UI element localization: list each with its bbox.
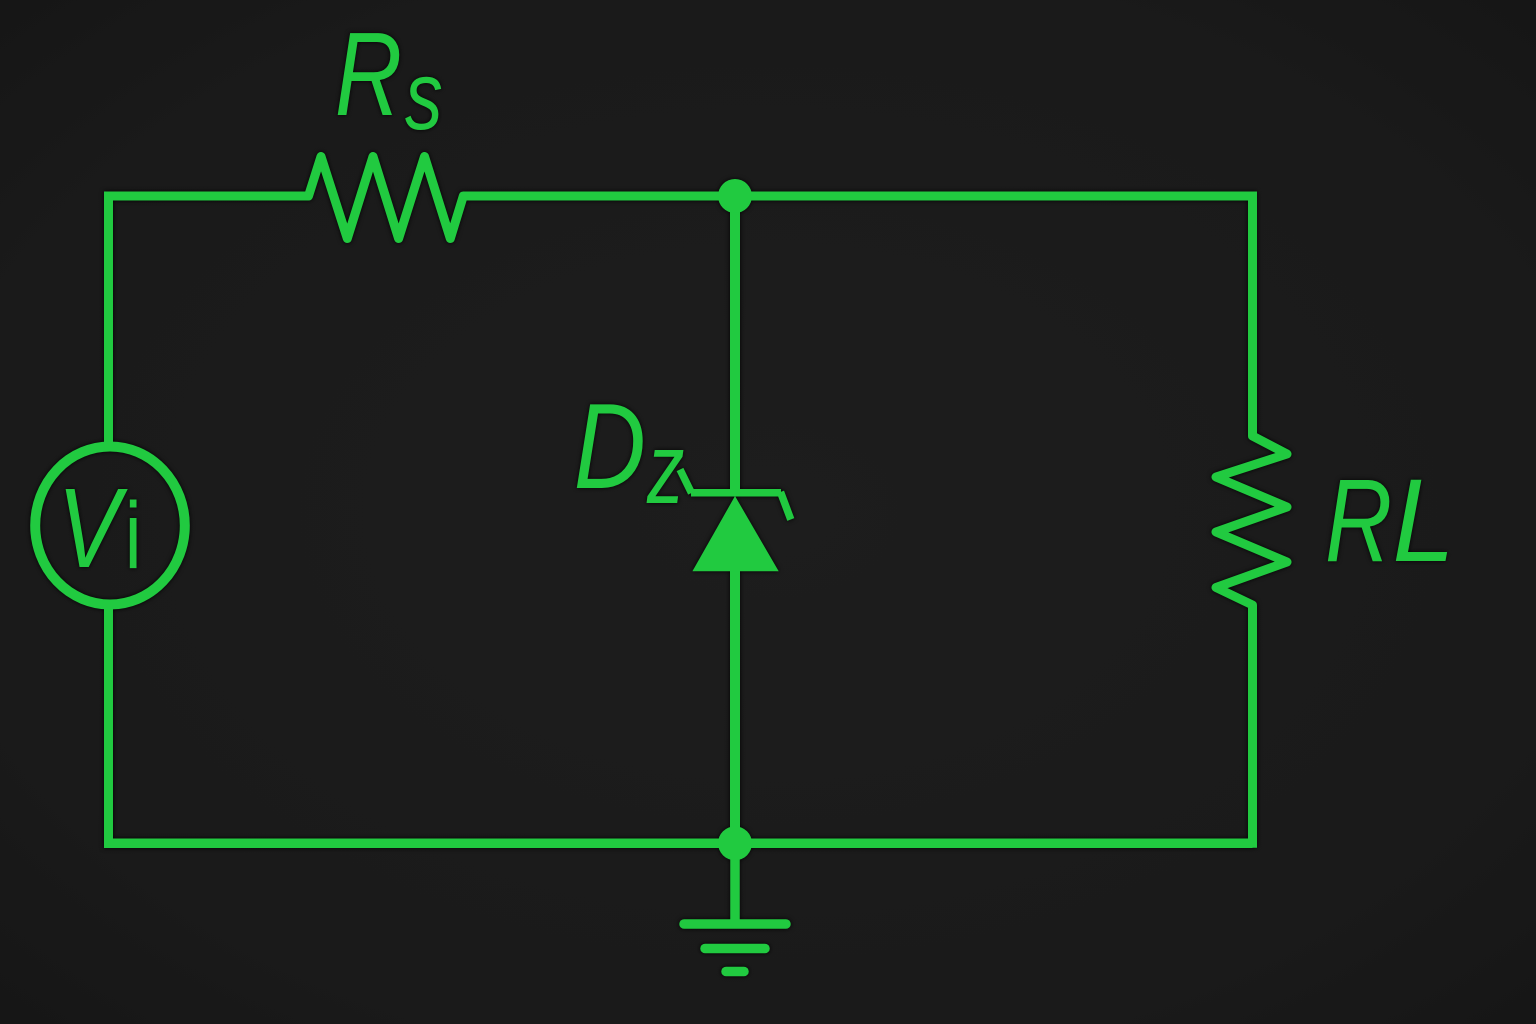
label i of Vi — [125, 483, 142, 589]
svg-text:R: R — [1325, 454, 1392, 586]
svg-text:D: D — [574, 377, 646, 514]
wire left vertical lower — [104, 605, 113, 848]
label R of Rs — [335, 7, 402, 141]
zener bar right bend — [781, 492, 791, 520]
node A: top junction dot — [718, 179, 752, 213]
svg-text:L: L — [1392, 456, 1455, 587]
ground bar 3 — [726, 967, 744, 977]
wire bottom — [104, 839, 1253, 849]
zener bar left bend — [680, 470, 692, 494]
node B: bottom junction dot — [718, 826, 752, 860]
wire zener branch upper — [730, 196, 740, 493]
svg-text:i: i — [125, 483, 142, 589]
svg-text:R: R — [335, 7, 402, 141]
label R of RL — [1325, 454, 1392, 586]
wire right vertical with resistor R_L zigzag inline — [1216, 192, 1287, 848]
label V of Vi — [58, 466, 129, 592]
voltage source V_i circle — [35, 447, 185, 605]
label s subscript of Rs — [405, 42, 443, 150]
wire top with resistor R_s zigzag inline — [109, 157, 1253, 239]
wire zener branch lower — [730, 560, 740, 843]
svg-text:V: V — [58, 466, 129, 592]
ground stem — [730, 843, 740, 924]
label z subscript of Dz — [646, 412, 684, 524]
svg-text:s: s — [405, 42, 443, 150]
zener diode D_z triangle (anode) — [692, 496, 778, 571]
label D of Dz — [574, 377, 646, 514]
wire left vertical upper — [104, 192, 113, 452]
label L of RL — [1392, 456, 1455, 587]
ground bar 2 — [705, 944, 765, 954]
zener cathode bar — [691, 489, 781, 497]
svg-text:z: z — [646, 412, 684, 524]
ground bar 1 — [684, 919, 786, 929]
